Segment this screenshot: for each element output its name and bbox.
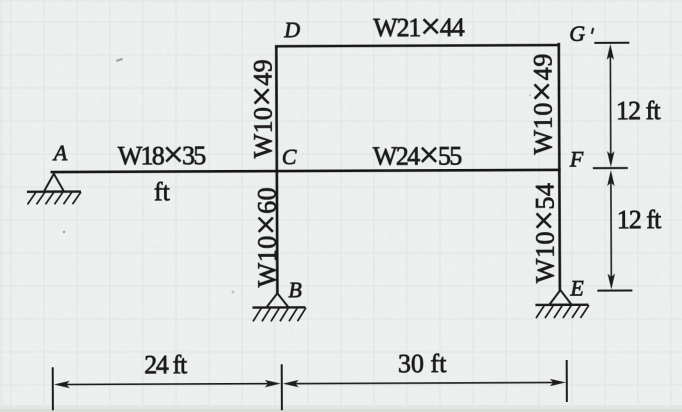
svg-text:W21×44: W21×44: [373, 6, 465, 47]
svg-text:12 ft: 12 ft: [616, 96, 661, 125]
svg-text:W24×55: W24×55: [373, 135, 463, 176]
svg-text:C: C: [282, 144, 297, 169]
svg-text:E: E: [569, 275, 584, 300]
svg-text:24 ft: 24 ft: [144, 350, 188, 379]
svg-text:12 ft: 12 ft: [617, 205, 662, 234]
svg-text:F: F: [569, 146, 584, 171]
svg-text:A: A: [52, 140, 68, 165]
svg-text:B: B: [288, 277, 302, 302]
svg-text:ft: ft: [154, 177, 171, 206]
svg-text:W10×49: W10×49: [242, 59, 283, 158]
svg-text:W10×54: W10×54: [524, 183, 565, 283]
svg-text:W18×35: W18×35: [118, 135, 207, 176]
svg-text:W10×49: W10×49: [522, 54, 563, 155]
svg-text:G: G: [569, 21, 585, 46]
svg-text:D: D: [283, 17, 300, 42]
svg-text:30 ft: 30 ft: [398, 349, 447, 378]
svg-text:W10×60: W10×60: [246, 187, 287, 287]
